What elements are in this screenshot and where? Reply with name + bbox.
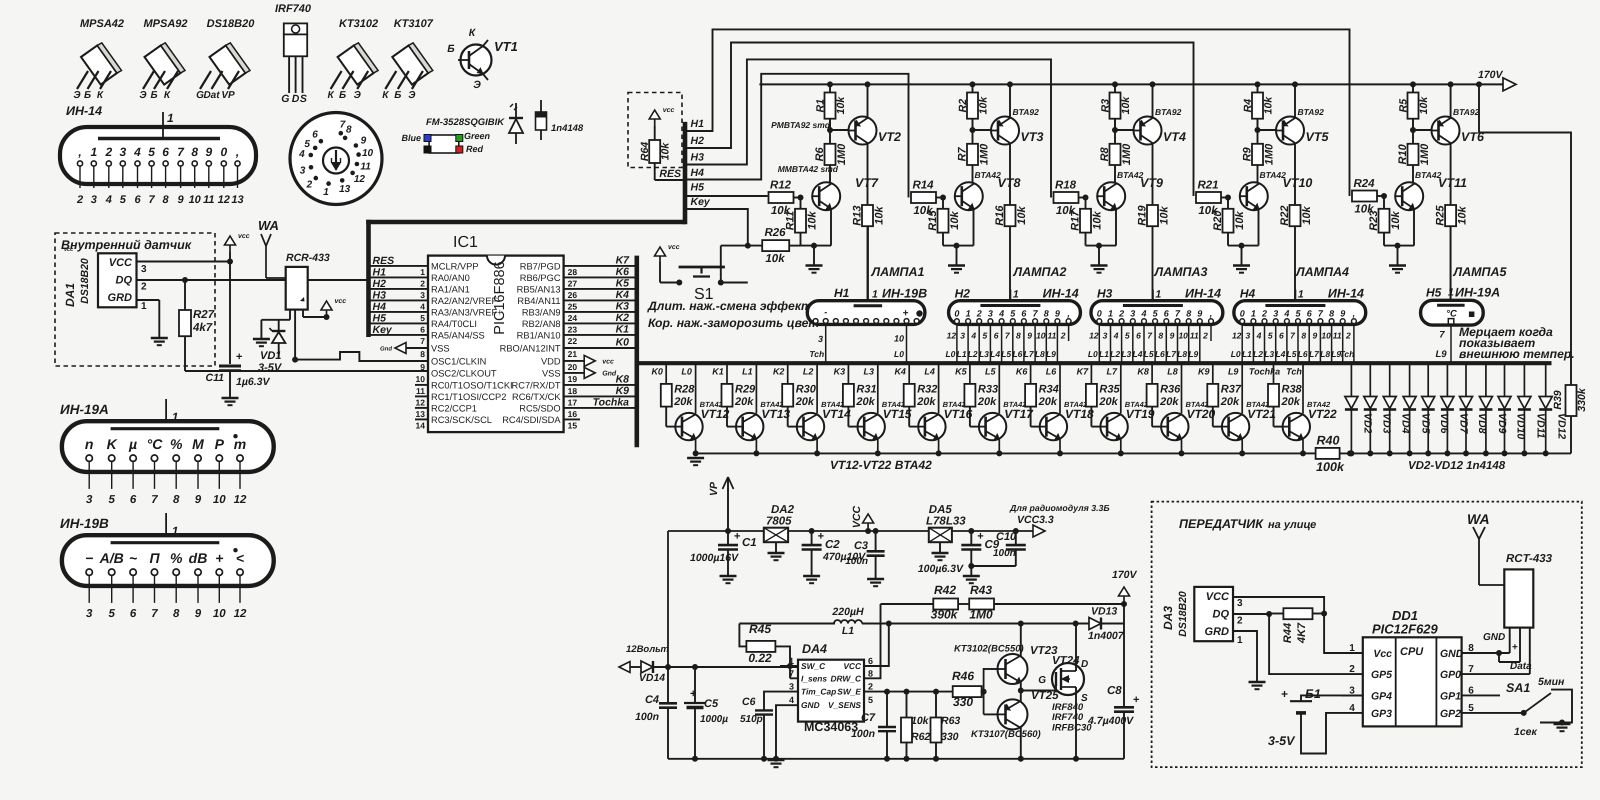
svg-text:20: 20: [568, 362, 578, 372]
svg-text:RES: RES: [659, 168, 681, 180]
svg-text:0: 0: [1240, 308, 1245, 318]
svg-text:K9: K9: [1198, 367, 1210, 377]
svg-text:RB3/AN9: RB3/AN9: [522, 307, 561, 317]
svg-text:K6: K6: [616, 266, 630, 278]
svg-text:,: ,: [1066, 308, 1070, 318]
svg-text:1: 1: [1013, 289, 1019, 301]
svg-text:2: 2: [1202, 331, 1208, 341]
svg-text:8: 8: [346, 125, 352, 136]
svg-text:PMBTA92 smd: PMBTA92 smd: [771, 120, 831, 130]
svg-text:VD5: VD5: [1420, 413, 1432, 434]
svg-text:L1: L1: [957, 349, 967, 359]
svg-text:GRD: GRD: [1205, 626, 1230, 638]
svg-text:H4: H4: [691, 167, 705, 179]
svg-text:DA2: DA2: [771, 504, 795, 516]
svg-text:n: n: [85, 436, 94, 452]
svg-text:9: 9: [1170, 331, 1175, 341]
svg-text:L8: L8: [1167, 367, 1178, 377]
svg-text:Н5: Н5: [1426, 286, 1442, 300]
svg-text:WA: WA: [1467, 511, 1490, 527]
svg-text:L78L33: L78L33: [926, 516, 966, 528]
svg-text:ЛАМПА2: ЛАМПА2: [1013, 265, 1067, 279]
svg-text:RA1/AN1: RA1/AN1: [431, 284, 470, 294]
svg-text:3: 3: [300, 165, 306, 176]
svg-text:2: 2: [1345, 331, 1351, 341]
svg-text:4: 4: [1113, 331, 1119, 341]
svg-text:DQ: DQ: [116, 275, 133, 287]
svg-text:6: 6: [994, 331, 999, 341]
svg-text:10k: 10k: [1120, 96, 1132, 115]
svg-text:BTA92: BTA92: [1298, 107, 1325, 117]
svg-text:5: 5: [120, 194, 127, 206]
svg-text:9: 9: [195, 494, 202, 506]
svg-text:на улице: на улице: [1268, 519, 1316, 531]
svg-text:S: S: [300, 93, 307, 105]
svg-text:20k: 20k: [1159, 396, 1179, 408]
svg-text:3: 3: [1103, 331, 1108, 341]
svg-text:100n: 100n: [851, 728, 875, 740]
svg-text:BTA42: BTA42: [1260, 170, 1287, 180]
svg-text:C4: C4: [645, 694, 659, 706]
svg-text:9: 9: [1197, 308, 1202, 318]
svg-text:VT1: VT1: [494, 39, 518, 54]
svg-text:18: 18: [568, 386, 578, 396]
svg-text:22: 22: [568, 336, 578, 346]
svg-text:RCT-433: RCT-433: [1506, 553, 1553, 565]
svg-text:R29: R29: [735, 384, 756, 396]
svg-text:IRFBC30: IRFBC30: [1052, 723, 1092, 734]
svg-text:R20: R20: [1212, 210, 1224, 231]
svg-text:2: 2: [104, 145, 112, 159]
svg-text:1: 1: [1448, 287, 1454, 299]
svg-text:H2: H2: [373, 278, 387, 290]
svg-text:R46: R46: [952, 669, 974, 683]
svg-text:10k: 10k: [1016, 206, 1028, 225]
svg-text:1: 1: [1108, 308, 1113, 318]
svg-text:12: 12: [1232, 331, 1242, 341]
svg-text:R31: R31: [856, 384, 876, 396]
svg-text:H1: H1: [373, 266, 387, 278]
svg-text:Tch: Tch: [1286, 367, 1302, 377]
svg-text:Б: Б: [394, 90, 401, 101]
svg-text:3: 3: [789, 682, 794, 692]
svg-text:6: 6: [134, 194, 141, 206]
svg-text:VT15: VT15: [883, 407, 912, 421]
svg-text:9: 9: [1340, 308, 1345, 318]
svg-text:L7: L7: [1107, 367, 1118, 377]
svg-text:4: 4: [1140, 308, 1146, 318]
svg-text:G: G: [1038, 675, 1046, 686]
svg-text:4K7: 4K7: [1296, 622, 1308, 644]
svg-text:VD7: VD7: [1457, 413, 1469, 435]
svg-text:A/B: A/B: [99, 550, 124, 566]
svg-text:1сек: 1сек: [1514, 726, 1538, 738]
svg-text:3: 3: [988, 308, 993, 318]
svg-text:5: 5: [983, 331, 988, 341]
svg-text:5: 5: [304, 139, 310, 150]
svg-text:,: ,: [77, 145, 81, 159]
svg-text:1n4148: 1n4148: [551, 123, 584, 134]
svg-text:8: 8: [868, 668, 873, 678]
svg-text:4: 4: [105, 194, 112, 206]
svg-text:8: 8: [420, 349, 425, 359]
svg-text:Tch: Tch: [1340, 349, 1355, 359]
svg-text:26: 26: [568, 290, 578, 300]
svg-text:GRD: GRD: [108, 292, 133, 304]
svg-text:12: 12: [947, 331, 957, 341]
svg-text:7: 7: [151, 494, 158, 506]
svg-text:К: К: [328, 90, 335, 101]
svg-text:L6: L6: [1046, 367, 1057, 377]
svg-text:%: %: [170, 436, 183, 452]
svg-text:D: D: [1081, 659, 1088, 670]
svg-text:1M0: 1M0: [1121, 143, 1133, 165]
svg-text:1: 1: [1349, 643, 1355, 654]
svg-text:R22: R22: [1279, 206, 1291, 226]
svg-text:RA5/AN4/SS: RA5/AN4/SS: [431, 330, 485, 340]
svg-text:GP4: GP4: [1371, 690, 1392, 702]
svg-text:GP0: GP0: [1440, 669, 1461, 681]
svg-text:R24: R24: [1353, 178, 1375, 190]
svg-text:28: 28: [568, 267, 578, 277]
svg-text:m: m: [234, 436, 246, 452]
svg-text:MMBTA42 smd: MMBTA42 smd: [778, 164, 839, 174]
svg-text:16: 16: [568, 409, 578, 419]
svg-text:GP5: GP5: [1371, 669, 1392, 681]
svg-text:R21: R21: [1197, 180, 1218, 192]
svg-text:VD13: VD13: [1091, 606, 1117, 618]
svg-text:8: 8: [191, 145, 198, 159]
svg-text:3: 3: [141, 264, 147, 275]
svg-text:10k: 10k: [765, 253, 785, 265]
svg-text:Red: Red: [466, 144, 484, 154]
svg-text:ЛАМПА3: ЛАМПА3: [1154, 265, 1208, 279]
svg-text:L8: L8: [1320, 349, 1330, 359]
svg-text:Н1: Н1: [834, 286, 850, 300]
svg-text:Кор. наж.-заморозить цвет: Кор. наж.-заморозить цвет: [648, 316, 819, 330]
svg-text:4: 4: [1349, 703, 1355, 714]
svg-text:SW_E: SW_E: [837, 687, 861, 697]
svg-text:20k: 20k: [795, 396, 815, 408]
svg-text:8: 8: [1044, 308, 1049, 318]
svg-text:R3: R3: [1100, 99, 1112, 113]
svg-text:R43: R43: [970, 583, 992, 597]
svg-text:RC0/T1OSO/T1CKI: RC0/T1OSO/T1CKI: [431, 380, 513, 390]
svg-text:DA4: DA4: [802, 642, 827, 656]
svg-text:VT24: VT24: [1052, 655, 1080, 667]
svg-text:VCC: VCC: [851, 505, 863, 528]
svg-text:10: 10: [189, 194, 202, 206]
svg-text:BTA42: BTA42: [1415, 170, 1442, 180]
svg-text:-: -: [824, 307, 827, 317]
svg-text:RC2/CCP1: RC2/CCP1: [431, 403, 477, 413]
svg-text:1: 1: [966, 308, 971, 318]
svg-text:C5: C5: [704, 698, 719, 710]
svg-text:R15: R15: [927, 210, 939, 231]
svg-text:RB5/AN13: RB5/AN13: [517, 284, 561, 294]
svg-text:VT12-VT22 BTA42: VT12-VT22 BTA42: [830, 458, 932, 472]
svg-text:Key: Key: [373, 324, 393, 336]
svg-text:5: 5: [148, 145, 155, 159]
svg-text:R19: R19: [1137, 205, 1149, 226]
svg-text:R33: R33: [978, 384, 998, 396]
svg-text:9: 9: [205, 145, 212, 159]
svg-text:VCC: VCC: [843, 661, 862, 671]
svg-text:5: 5: [1125, 331, 1130, 341]
svg-text:C7: C7: [861, 712, 876, 724]
svg-text:10k: 10k: [1457, 206, 1469, 225]
svg-text:vcc: vcc: [663, 107, 675, 114]
svg-text:3: 3: [86, 608, 93, 620]
svg-text:4.7µ400V: 4.7µ400V: [1087, 715, 1134, 727]
svg-text:1: 1: [141, 301, 147, 312]
svg-text:DA3: DA3: [1161, 606, 1175, 630]
svg-text:VT7: VT7: [855, 176, 879, 190]
svg-text:+: +: [1512, 642, 1518, 653]
svg-text:2: 2: [1349, 664, 1355, 675]
svg-text:13: 13: [231, 194, 243, 206]
svg-text:Б: Б: [447, 43, 455, 55]
svg-text:170V: 170V: [1478, 69, 1504, 81]
svg-text:+: +: [236, 351, 242, 363]
svg-text:ЛАМПА5: ЛАМПА5: [1453, 265, 1508, 279]
svg-text:VT22: VT22: [1308, 407, 1337, 421]
svg-text:K3: K3: [834, 367, 846, 377]
svg-text:8: 8: [173, 494, 180, 506]
svg-text:6: 6: [868, 656, 873, 666]
svg-text:L1: L1: [1242, 349, 1252, 359]
svg-text:WA: WA: [258, 218, 279, 233]
svg-text:R18: R18: [1055, 180, 1077, 192]
svg-text:ИН-19А: ИН-19А: [1455, 286, 1500, 300]
svg-text:7: 7: [151, 608, 158, 620]
svg-text:1000µ16V: 1000µ16V: [690, 552, 739, 564]
svg-text:L9: L9: [1188, 349, 1198, 359]
svg-text:L8: L8: [1035, 349, 1045, 359]
svg-text:12: 12: [1089, 331, 1099, 341]
svg-text:12: 12: [354, 174, 366, 185]
svg-text:L4: L4: [1133, 349, 1143, 359]
svg-text:Э: Э: [354, 90, 362, 101]
svg-text:Б1: Б1: [1305, 687, 1321, 701]
svg-text:CPU: CPU: [1400, 646, 1424, 658]
svg-text:4k7: 4k7: [192, 322, 213, 334]
svg-text:10k: 10k: [1301, 206, 1313, 225]
svg-text:ИН-14: ИН-14: [1043, 287, 1079, 301]
svg-text:R42: R42: [934, 583, 956, 597]
svg-text:10: 10: [1036, 331, 1046, 341]
svg-text:1: 1: [420, 267, 425, 277]
svg-text:11: 11: [416, 386, 425, 396]
svg-text:4: 4: [420, 301, 425, 311]
svg-text:R6: R6: [814, 146, 826, 161]
svg-text:2: 2: [1237, 616, 1243, 627]
svg-text:330: 330: [941, 731, 959, 743]
svg-text:VD14: VD14: [639, 672, 665, 684]
svg-text:2: 2: [1118, 308, 1124, 318]
svg-text:K7: K7: [616, 254, 631, 266]
svg-text:R36: R36: [1160, 384, 1181, 396]
svg-text:RB4/AN11: RB4/AN11: [517, 296, 560, 306]
svg-text:ИН-19В: ИН-19В: [882, 287, 927, 301]
svg-text:20k: 20k: [916, 396, 936, 408]
svg-text:VT6: VT6: [1461, 130, 1485, 144]
svg-text:R4: R4: [1242, 99, 1254, 113]
svg-text:20k: 20k: [1220, 396, 1240, 408]
svg-text:12: 12: [234, 608, 247, 620]
svg-text:390k: 390k: [931, 608, 959, 622]
svg-text:1: 1: [90, 145, 97, 159]
svg-text:8: 8: [1158, 331, 1163, 341]
svg-text:VD2-VD12 1n4148: VD2-VD12 1n4148: [1408, 460, 1506, 472]
svg-text:VCC: VCC: [109, 257, 133, 269]
svg-text:2: 2: [141, 282, 147, 293]
svg-text:П: П: [149, 550, 160, 566]
svg-text:,: ,: [1209, 308, 1213, 318]
svg-text:L1: L1: [1099, 349, 1109, 359]
svg-text:6: 6: [420, 324, 425, 334]
svg-text:Длит. наж.-смена эффекта: Длит. наж.-смена эффекта: [647, 299, 819, 313]
svg-text:3: 3: [818, 334, 823, 344]
svg-text:1M0: 1M0: [969, 608, 993, 622]
svg-text:6: 6: [130, 494, 137, 506]
svg-text:D: D: [292, 93, 300, 105]
svg-text:9: 9: [361, 136, 367, 147]
svg-text:L0: L0: [894, 349, 904, 359]
svg-text:12: 12: [218, 194, 230, 206]
svg-text:R37: R37: [1221, 384, 1242, 396]
svg-text:510p: 510p: [740, 714, 763, 725]
svg-text:VD1: VD1: [260, 350, 281, 362]
svg-text:Э: Э: [73, 90, 81, 101]
svg-text:VT8: VT8: [998, 176, 1021, 190]
svg-text:L9: L9: [1435, 349, 1447, 360]
svg-text:8: 8: [1301, 331, 1306, 341]
svg-text:100n: 100n: [845, 556, 868, 567]
svg-text:7805: 7805: [766, 516, 792, 528]
svg-text:24: 24: [568, 313, 578, 323]
svg-text:5: 5: [1268, 331, 1273, 341]
svg-text:ИН-14: ИН-14: [1185, 287, 1221, 301]
svg-text:2: 2: [306, 179, 313, 190]
svg-text:VD9: VD9: [1496, 413, 1508, 434]
svg-text:RC3/SCK/SCL: RC3/SCK/SCL: [431, 415, 492, 425]
svg-text:1M0: 1M0: [979, 143, 991, 165]
svg-text:+: +: [734, 530, 740, 542]
svg-text:1M0: 1M0: [1419, 143, 1431, 165]
svg-text:20k: 20k: [734, 396, 754, 408]
svg-text:10k: 10k: [1390, 211, 1402, 230]
svg-text:KT3107: KT3107: [394, 18, 434, 30]
svg-text:IRF740: IRF740: [1052, 712, 1084, 723]
svg-text:3: 3: [1237, 598, 1243, 609]
svg-text:L4: L4: [1275, 349, 1285, 359]
svg-text:C6: C6: [742, 696, 756, 708]
svg-text:µ: µ: [128, 436, 137, 452]
svg-text:V_SENS: V_SENS: [828, 700, 861, 710]
svg-text:8: 8: [163, 194, 170, 206]
svg-text:L4: L4: [924, 367, 935, 377]
svg-text:10k: 10k: [835, 96, 847, 115]
svg-text:L2: L2: [1253, 349, 1263, 359]
svg-text:1: 1: [1251, 308, 1256, 318]
svg-text:L2: L2: [1110, 349, 1120, 359]
svg-text:PIC12F629: PIC12F629: [1372, 622, 1439, 637]
svg-text:3: 3: [960, 331, 965, 341]
svg-text:L2: L2: [968, 349, 978, 359]
svg-text:20k: 20k: [1098, 396, 1118, 408]
svg-text:220µH: 220µH: [831, 606, 864, 618]
svg-text:C3: C3: [854, 540, 868, 552]
svg-text:M: M: [192, 436, 204, 452]
svg-text:20k: 20k: [1038, 396, 1058, 408]
svg-text:R1: R1: [815, 99, 827, 113]
svg-text:K6: K6: [1016, 367, 1028, 377]
svg-text:RB2/AN8: RB2/AN8: [522, 319, 561, 329]
svg-text:L5: L5: [1144, 349, 1154, 359]
svg-text:К: К: [97, 90, 104, 101]
svg-text:RA0/AN0: RA0/AN0: [431, 273, 470, 283]
svg-text:100µ6.3V: 100µ6.3V: [918, 563, 964, 575]
svg-text:K1: K1: [616, 323, 630, 335]
svg-text:1: 1: [1237, 635, 1243, 646]
svg-text:2: 2: [976, 308, 982, 318]
svg-text:C2: C2: [825, 539, 840, 551]
svg-text:+: +: [977, 530, 983, 542]
svg-text:0: 0: [1097, 308, 1102, 318]
svg-text:2: 2: [868, 682, 873, 692]
svg-text:1M0: 1M0: [836, 143, 848, 165]
svg-text:RB7/PGD: RB7/PGD: [520, 261, 561, 271]
svg-text:6: 6: [1136, 331, 1141, 341]
svg-text:4: 4: [998, 308, 1004, 318]
svg-text:VT25: VT25: [1031, 690, 1059, 702]
svg-text:17: 17: [568, 397, 578, 407]
svg-text:VT21: VT21: [1247, 407, 1276, 421]
svg-text:10k: 10k: [874, 206, 886, 225]
svg-text:vcc: vcc: [64, 247, 73, 253]
svg-text:внешнюю темпер.: внешнюю темпер.: [1459, 347, 1575, 361]
svg-text:L6: L6: [1155, 349, 1165, 359]
svg-text:К: К: [382, 90, 389, 101]
svg-text:L1: L1: [742, 367, 753, 377]
svg-text:2: 2: [1060, 331, 1066, 341]
svg-text:2: 2: [76, 194, 83, 206]
svg-text:vcc: vcc: [602, 358, 614, 365]
svg-text:+: +: [1281, 687, 1288, 701]
svg-text:R62: R62: [911, 731, 930, 743]
svg-text:VT4: VT4: [1163, 130, 1186, 144]
svg-text:L0: L0: [945, 349, 955, 359]
svg-text:RC1/T1OSI/CCP2: RC1/T1OSI/CCP2: [431, 392, 506, 402]
svg-text:2: 2: [420, 278, 425, 288]
svg-text:VP: VP: [221, 90, 235, 101]
svg-text:R16: R16: [994, 205, 1006, 226]
svg-text:R8: R8: [1099, 146, 1111, 161]
svg-text:RA2/AN2/VREF-: RA2/AN2/VREF-: [431, 296, 500, 306]
svg-text:ЛАМПА4: ЛАМПА4: [1295, 265, 1349, 279]
svg-text:R10: R10: [1397, 143, 1409, 164]
svg-text:L9: L9: [1046, 349, 1056, 359]
svg-text:3: 3: [1273, 308, 1278, 318]
svg-text:0: 0: [954, 308, 959, 318]
svg-text:Dat: Dat: [203, 90, 220, 101]
svg-text:20k: 20k: [1281, 396, 1301, 408]
svg-text:RES: RES: [373, 255, 395, 267]
svg-text:ИН-14: ИН-14: [66, 104, 102, 118]
svg-text:K: K: [107, 436, 118, 452]
svg-text:ИН-14: ИН-14: [1328, 287, 1364, 301]
